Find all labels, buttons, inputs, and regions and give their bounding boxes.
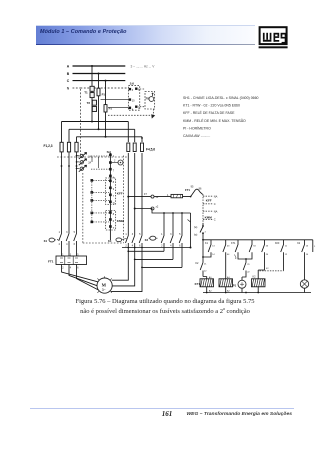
svg-text:KT1: KT1 [231, 242, 236, 245]
transformer T1 windings [90, 86, 94, 91]
svg-text:3: 3 [170, 233, 172, 236]
motor terminal ticks [97, 276, 111, 293]
left terminal b [91, 191, 94, 194]
dashed return line to cluster [108, 114, 151, 116]
svg-text:T1: T1 [84, 90, 88, 94]
svg-text:14: 14 [306, 254, 309, 256]
phase wire L1 horizontal [62, 121, 129, 123]
oval K3 links [149, 237, 158, 239]
contactor K2 contact 1 [126, 236, 129, 248]
oval link [122, 239, 127, 240]
svg-text:53: 53 [253, 245, 256, 247]
wire feed 2 drop [190, 213, 192, 248]
junction dot feed2 bottom [190, 247, 192, 249]
svg-text:KT1 - RTW - 02 - 220 Vca 0N5 E: KT1 - RTW - 02 - 220 Vca 0N5 E660 [183, 104, 240, 108]
svg-text:K3: K3 [108, 239, 112, 243]
svg-text:A: A [67, 65, 70, 69]
svg-text:11: 11 [285, 245, 288, 247]
coil K2 [252, 279, 266, 287]
wire L2 drop left [68, 129, 70, 142]
contactor K3 contact 1 [161, 213, 164, 248]
left terminal c [91, 199, 94, 202]
fuse arrow symbol 3 [79, 165, 87, 172]
svg-text:4: 4 [70, 268, 72, 270]
P2 meter dashed box [145, 92, 155, 110]
footer text [187, 412, 293, 417]
svg-text:KMM - RELÉ DE MIN. E MAX. TENS: KMM - RELÉ DE MIN. E MAX. TENSÃO [183, 118, 246, 123]
wire control feed 1 [128, 196, 190, 198]
svg-text:7: 7 [113, 170, 115, 173]
junction dots K3 tops [163, 212, 165, 214]
wire step 3 [142, 248, 182, 268]
collector dots [127, 247, 129, 249]
arrow 3 circle [80, 167, 83, 170]
KFF contact block dashed box [128, 86, 139, 111]
wire tap to KFF box mid [101, 99, 129, 101]
KFF sub box [106, 178, 116, 205]
svg-text:KMM: KMM [117, 219, 125, 223]
svg-text:4: 4 [66, 243, 68, 246]
junction dot C [105, 80, 107, 82]
fuse F1 [60, 142, 63, 152]
svg-text:3: 3 [132, 233, 134, 236]
svg-text:21: 21 [247, 264, 250, 266]
svg-text:K1: K1 [44, 239, 48, 243]
WEG logo [250, 20, 310, 55]
KMM terminal T [109, 225, 112, 228]
svg-text:FT1: FT1 [48, 260, 54, 264]
K1 oval dashed link [55, 239, 59, 242]
P1 to rail [241, 288, 243, 292]
contactor K3 contact 2 [170, 213, 173, 248]
coil K2 hatch [252, 279, 264, 287]
wire motor lead w2 [111, 267, 142, 291]
SH1 dot up [202, 225, 204, 227]
bus A wire [73, 65, 126, 67]
fuse P1 aux2 [104, 105, 107, 112]
svg-text:K2: K2 [297, 242, 301, 245]
svg-text:2: 2 [114, 159, 116, 162]
KMM pin NA [203, 210, 213, 212]
svg-text:14: 14 [212, 254, 215, 256]
svg-text:N: N [113, 202, 115, 205]
signal lamp W [118, 160, 123, 165]
svg-text:T2: T2 [87, 101, 91, 105]
resistor hatch [173, 194, 181, 197]
KT1 timed mark [234, 255, 236, 260]
svg-text:F4,5,6: F4,5,6 [146, 148, 155, 152]
svg-text:A2: A2 [227, 289, 230, 292]
SH1 terminal 3 [109, 168, 112, 171]
svg-text:44: 44 [227, 254, 230, 256]
svg-text:T: T [113, 227, 115, 230]
FT1 dividers [65, 256, 73, 265]
enclosure dashed right [123, 156, 125, 244]
wire L1 drop right [127, 122, 129, 143]
tick to arrow 1 [77, 155, 80, 157]
link dash c [93, 199, 109, 201]
ladder top rail [203, 239, 313, 241]
svg-text:1: 1 [113, 155, 115, 158]
contactor K3 contact 3 [179, 213, 182, 248]
link dash e [93, 221, 109, 223]
wire L2 drop right [134, 129, 136, 142]
wire tap C vertical [105, 81, 107, 137]
svg-text:P1: P1 [109, 106, 113, 110]
resistor F10 [171, 194, 183, 197]
KMM sub box [106, 211, 116, 231]
dashed link 98 to KFF pins [202, 193, 205, 195]
svg-text:42: 42 [266, 268, 269, 270]
fuse seccionador arrow 1 [79, 152, 87, 159]
contactor K1 contact 2 [66, 234, 69, 257]
svg-text:23: 23 [266, 245, 269, 247]
junction dot L3 [105, 136, 107, 138]
junction dot A [91, 65, 93, 67]
svg-text:(w): (w) [194, 233, 198, 236]
bus C wire [73, 80, 126, 82]
svg-text:3~: 3~ [102, 288, 106, 292]
svg-text:K2: K2 [145, 238, 149, 242]
header bar [36, 25, 255, 45]
contactor K2 contact 2 [132, 236, 135, 248]
KFF terminal 7 [109, 194, 112, 197]
svg-text:KFF: KFF [206, 199, 212, 203]
lamp to rail [304, 288, 306, 292]
wire step 1 [128, 248, 164, 252]
step dot 3 [141, 267, 143, 269]
svg-text:C: C [67, 79, 70, 83]
svg-text:1: 1 [314, 246, 316, 248]
SH1 terminal 2 [109, 161, 112, 164]
branch K2 coil contact [258, 240, 264, 279]
step dot 1 [127, 250, 129, 252]
terminal 6 [135, 88, 137, 90]
svg-text:9: 9 [113, 188, 115, 191]
caption line 1 [5, 298, 320, 305]
junction dot L1 [91, 121, 93, 123]
svg-text:SH1 - CHAVE LIGA-DESL. c SINAL: SH1 - CHAVE LIGA-DESL. c SINAL (0400) 06… [183, 96, 259, 100]
wire control phase 2 vertical [134, 153, 136, 236]
left chain dashes [91, 182, 93, 221]
wire motor phase 2 vertical [68, 152, 70, 234]
arrow tap dots [76, 155, 78, 157]
svg-text:95: 95 [191, 186, 194, 189]
bus B wire [73, 73, 126, 75]
KFF pin NA [203, 195, 213, 197]
lamp W dot [120, 162, 122, 164]
svg-text:13: 13 [212, 245, 215, 247]
svg-text:8: 8 [113, 213, 115, 216]
svg-text:21: 21 [204, 263, 207, 265]
svg-text:KT1: KT1 [195, 282, 201, 286]
svg-text:2: 2 [59, 243, 61, 246]
KMM pin C [203, 218, 213, 220]
tick to arrow 3 [77, 167, 80, 169]
KT1 to rail [206, 287, 208, 293]
hourmeter P1 circle [238, 280, 246, 288]
svg-text:1: 1 [125, 233, 127, 236]
arrow 2 circle [80, 161, 83, 164]
FT1 contact terminals [190, 196, 192, 198]
contactor K1 contact 3 [74, 234, 77, 257]
terminal 2 [135, 106, 137, 108]
terminal 4 [129, 107, 131, 109]
lamp h1 cross [302, 281, 308, 287]
svg-text:K2: K2 [253, 276, 257, 279]
svg-text:N: N [67, 87, 70, 91]
svg-text:22: 22 [247, 272, 250, 274]
svg-text:3 ~ ..., ... Hz ... V: 3 ~ ..., ... Hz ... V [131, 64, 156, 68]
wire motor inlet 1 [62, 265, 98, 282]
svg-text:NA: NA [214, 209, 218, 213]
junction dot B [98, 73, 100, 75]
svg-text:FT1: FT1 [185, 188, 190, 192]
wire tap B vertical [98, 74, 100, 130]
KFF pin column dashed vertical [202, 194, 204, 223]
left terminal a [91, 179, 94, 182]
wire N vertical dashed [80, 89, 82, 157]
svg-text:M: M [102, 282, 107, 287]
wire tap A vertical [91, 66, 93, 122]
left terminal d [91, 212, 94, 215]
arrow 1 circle [80, 154, 83, 157]
fuse F5 [133, 143, 136, 152]
svg-text:C: C [214, 218, 216, 222]
svg-text:NA: NA [214, 194, 218, 198]
svg-text:6: 6 [74, 243, 76, 246]
svg-text:3: 3 [66, 231, 68, 234]
terminal 10 [129, 98, 131, 100]
svg-text:F7: F7 [144, 193, 148, 196]
K1 to rail [225, 287, 227, 293]
dashed jumper row 1 [91, 155, 109, 157]
page number [152, 410, 182, 418]
svg-text:P1: P1 [233, 284, 237, 288]
SH1 terminal 1 [109, 154, 112, 157]
tick to arrow 2 [77, 161, 80, 163]
wire motor phase 3 vertical [76, 152, 78, 234]
svg-text:5: 5 [179, 233, 181, 236]
svg-text:2A: 2A [88, 162, 91, 165]
wire motor inlet 2 [69, 265, 97, 286]
svg-text:1: 1 [59, 231, 61, 234]
KFF terminal N [109, 201, 112, 204]
KMM terminal 8 [109, 211, 112, 214]
link dash b [93, 191, 109, 193]
fuse F4 [127, 143, 130, 152]
branch K1 selo contact [203, 240, 211, 257]
motor M1 circle [97, 278, 112, 293]
link dash a [93, 179, 109, 181]
contactor K1 contact 1 [59, 234, 62, 257]
svg-text:PI - HORÍMETRO: PI - HORÍMETRO [183, 126, 211, 130]
dot selo join [202, 256, 204, 258]
meter A circle [149, 97, 154, 102]
KFF terminal 8 [109, 180, 112, 183]
svg-text:KFF: KFF [275, 242, 280, 245]
junction dots under fuses [61, 165, 63, 167]
junction P1 [245, 258, 247, 260]
junction dot F6 top [141, 137, 143, 139]
svg-text:KFF - RELÉ DE FALTA DE FASE: KFF - RELÉ DE FALTA DE FASE [183, 110, 235, 115]
svg-text:3: 3 [132, 89, 134, 92]
svg-text:22: 22 [204, 271, 207, 273]
signal lamp h1 [300, 280, 308, 288]
svg-text:6: 6 [77, 268, 79, 270]
overload relay FT1 box [56, 256, 87, 265]
enclosure dashed bottom [83, 242, 124, 244]
wire tap to KFF box low [108, 107, 128, 109]
phase wire L2 horizontal [69, 128, 135, 130]
svg-text:F1,2,3: F1,2,3 [44, 144, 53, 148]
wire control phase 3 vertical [141, 153, 143, 236]
left terminal e [91, 221, 94, 224]
wire control phase 1 vertical [127, 153, 129, 236]
wire motor lead v2 [112, 259, 135, 286]
KFF terminal 9 [109, 187, 112, 190]
enclosure dashed top [57, 156, 127, 158]
wire control feed 2 [135, 209, 191, 214]
coil oval K3 [150, 236, 156, 240]
svg-text:5: 5 [74, 231, 76, 234]
svg-text:13: 13 [306, 245, 309, 247]
svg-text:1: 1 [161, 233, 163, 236]
wire L3 drop left [76, 137, 78, 143]
svg-text:7: 7 [113, 195, 115, 198]
dashed drop from P2 [152, 109, 154, 115]
tap circle x2 [151, 207, 154, 210]
bottom rail dots [206, 292, 208, 294]
P1 inner mark [240, 282, 244, 286]
dashed link box to P2 [140, 88, 145, 90]
fuse F2 [67, 142, 70, 152]
coil oval K3a [116, 238, 122, 242]
svg-text:8: 8 [113, 181, 115, 184]
fuse F6 [141, 143, 144, 152]
junction dot control feed 1 [127, 196, 129, 198]
wire motor lead u2 [112, 251, 128, 280]
lamp W link [112, 162, 118, 164]
branch K2 lamp contact [302, 240, 305, 280]
svg-text:B: B [67, 72, 70, 76]
terminal 3 [129, 88, 131, 90]
coil K1 [219, 279, 233, 287]
wire motor inlet 3 [77, 265, 99, 290]
KFF pin C [203, 203, 213, 205]
fuse F3 [75, 142, 78, 152]
step dot 2 [134, 259, 136, 261]
svg-text:5,6: 5,6 [130, 82, 135, 86]
SH1 switch wire [200, 223, 203, 240]
rail end stub [312, 240, 314, 252]
SH1 terminal 4 [109, 175, 112, 178]
coil K1 hatch [220, 279, 232, 287]
svg-text:KFF: KFF [117, 191, 123, 195]
svg-text:A2: A2 [209, 289, 212, 292]
svg-text:2: 2 [62, 268, 64, 270]
wire L1 drop left [61, 122, 63, 143]
coil KT1 hatch [201, 279, 213, 287]
junction dot L2 [98, 128, 100, 130]
collector wire [122, 247, 191, 249]
caption line 2 [5, 306, 320, 315]
P1 feed wire [242, 259, 246, 280]
branch KT1 timed contact [235, 240, 246, 259]
svg-text:K1: K1 [205, 242, 209, 245]
relay block main conductor [109, 153, 111, 240]
tick mark feed2 [188, 220, 191, 223]
junction dot control feed 2 [134, 208, 136, 210]
transformer T2 windings [92, 100, 96, 105]
svg-text:43: 43 [227, 245, 230, 247]
svg-text:24: 24 [266, 254, 269, 256]
fuse F1 aux [97, 88, 100, 96]
svg-text:P1: P1 [102, 92, 106, 96]
dashed jumper row 3 [91, 168, 109, 170]
coil oval K1 [49, 238, 55, 242]
ladder left vertical [200, 240, 207, 279]
wire motor phase 1 vertical [61, 152, 63, 234]
enclosure dashed left [82, 173, 84, 243]
svg-text:KMM: KMM [205, 215, 213, 219]
svg-text:2: 2 [205, 232, 207, 234]
stub B to arrows [91, 157, 93, 162]
wire step 2 [135, 248, 173, 260]
branch K1 aux contact [246, 240, 252, 259]
return line arrowhead [151, 114, 155, 118]
K2 to rail [257, 287, 259, 293]
phase wire L3 horizontal [77, 136, 143, 138]
footer rule [30, 408, 294, 409]
ladder bottom rail [203, 292, 311, 294]
meter arrow [152, 93, 153, 96]
contactor K2 contact 3 [139, 236, 142, 248]
branch KFF contact [281, 240, 284, 271]
branch K1 coil contact [223, 240, 226, 279]
svg-text:C: C [214, 202, 216, 206]
FT1 trip contact 95-96 [191, 189, 203, 196]
svg-text:(w): (w) [194, 226, 198, 229]
svg-text:x2: x2 [156, 206, 159, 209]
tap circle x1 [151, 195, 154, 198]
wire N dashed [73, 87, 129, 89]
svg-text:12: 12 [285, 254, 288, 256]
FT1 heater marks [60, 258, 78, 263]
fuse seccionador arrow 2 [79, 159, 87, 166]
dashed KFF link [260, 270, 284, 272]
dot rail left [202, 239, 204, 241]
svg-text:K2: K2 [195, 262, 199, 265]
coil KT1 [200, 279, 214, 287]
wire L3 drop right [141, 137, 143, 142]
svg-text:6: 6 [113, 220, 115, 223]
dashed link box to P2 low [140, 106, 145, 108]
svg-text:96: 96 [199, 187, 202, 190]
svg-text:10: 10 [132, 99, 135, 102]
svg-text:5: 5 [139, 233, 141, 236]
stub C to arrows [98, 157, 100, 168]
svg-text:CAIXA AW ..........: CAIXA AW .......... [183, 134, 210, 138]
SH1 dot down [202, 232, 204, 234]
link dash d [93, 212, 109, 214]
KMM terminal 6 [109, 218, 112, 221]
